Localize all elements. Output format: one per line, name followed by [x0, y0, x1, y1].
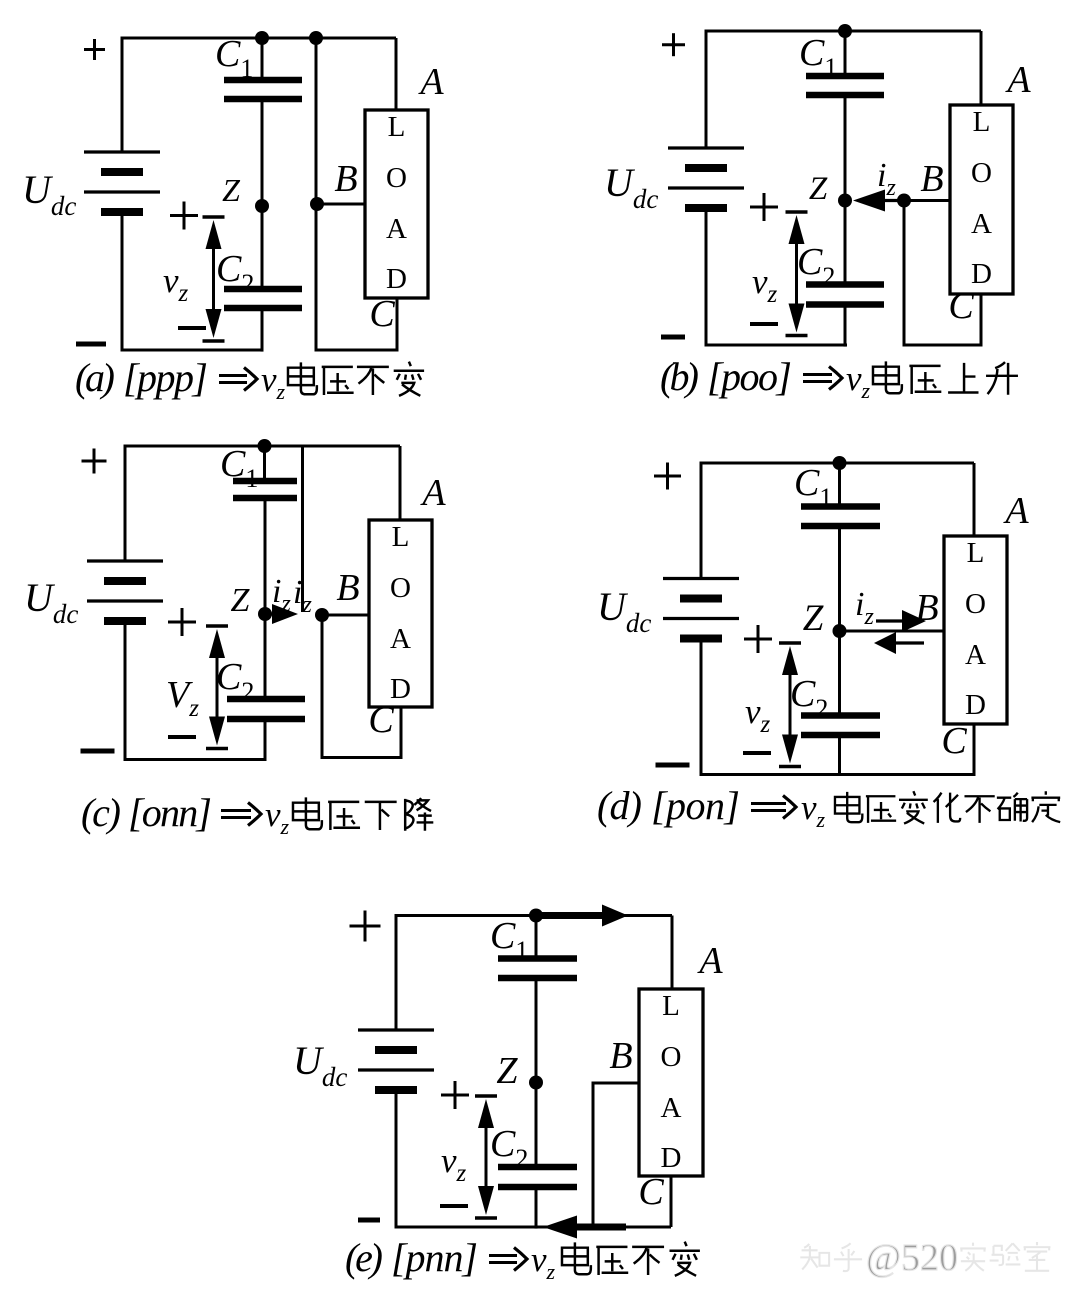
vz indicator (c) bottom tick	[206, 747, 228, 750]
node Z dot (d)	[833, 624, 847, 638]
capacitor C2 (d)	[801, 716, 880, 736]
wire top rail (a)	[122, 38, 396, 152]
node junction dot C1-top (b)	[838, 24, 852, 38]
wire B branch vertical (a)	[316, 38, 397, 350]
wire C1 bottom to node Z (e)	[535, 978, 538, 1083]
vz indicator (b) top tick	[786, 210, 808, 213]
wire node Z to C2 top (e)	[535, 1083, 538, 1168]
svg-text:Udc: Udc	[597, 584, 651, 638]
node junction dot B-branch-top (a)	[309, 31, 323, 45]
wire phase A drop (a)	[395, 38, 398, 110]
caption (e) chinese text	[562, 1242, 700, 1276]
svg-text:L: L	[967, 537, 985, 569]
wire battery negative to bottom rail (d)	[701, 639, 974, 775]
svg-text:B: B	[920, 158, 943, 200]
svg-text:(d): (d)	[597, 783, 642, 828]
load U1 (c) text LOAD	[390, 521, 411, 705]
vz indicator (d) minus sign	[743, 751, 771, 755]
load U1 (c) box	[369, 520, 432, 707]
caption (c) chinese text	[293, 797, 433, 830]
caption (c) implies arrow	[221, 803, 261, 826]
vz indicator (a) double arrow	[206, 220, 222, 338]
svg-text:vz: vz	[163, 261, 189, 307]
vz indicator (b) bottom tick	[786, 334, 808, 337]
node Z dot (a)	[255, 199, 269, 213]
wire battery negative to bottom rail (a)	[122, 212, 263, 350]
svg-text:(a): (a)	[75, 355, 115, 400]
caption (b) implies arrow	[803, 367, 842, 390]
battery plus sign (a)	[84, 39, 105, 60]
svg-text:D: D	[965, 689, 986, 721]
caption (d) implies arrow	[751, 796, 796, 819]
wire node B to load (c)	[322, 614, 369, 617]
svg-text:vz: vz	[261, 360, 286, 404]
vz indicator (a) top tick	[203, 215, 225, 218]
node junction dot C1-top (c)	[258, 439, 272, 453]
wire node Z to load B (d)	[840, 630, 945, 633]
capacitor C1 (b)	[806, 76, 884, 95]
battery minus sign (b)	[661, 335, 685, 340]
svg-text:B: B	[609, 1035, 632, 1077]
load U1 (d) box	[944, 536, 1007, 724]
vz indicator (b) double arrow	[789, 215, 805, 333]
svg-text:B: B	[915, 587, 938, 629]
capacitor C1 (e)	[498, 959, 577, 979]
wire C1 bottom to node Z (b)	[844, 95, 847, 200]
svg-text:D: D	[971, 258, 992, 290]
svg-text:C: C	[941, 720, 967, 762]
capacitor C1 (a)	[224, 80, 302, 99]
node B dot (a)	[310, 197, 324, 211]
svg-text:B: B	[336, 567, 359, 609]
capacitor C1 (d)	[801, 507, 880, 527]
svg-text:vz: vz	[441, 1141, 467, 1187]
svg-text:Udc: Udc	[293, 1038, 347, 1092]
svg-text:(c): (c)	[81, 790, 121, 835]
wire phase A drop (c)	[399, 446, 402, 520]
current arrow iz into Z (b)	[853, 190, 904, 212]
caption (d) chinese text	[835, 791, 1060, 823]
wire C1 top plate to rail (b)	[844, 31, 847, 76]
wire phase A drop (d)	[973, 463, 976, 536]
wire top rail (e)	[396, 916, 672, 1031]
capacitor C2 (b)	[806, 285, 884, 305]
svg-text:A: A	[386, 213, 407, 245]
wire top rail (c)	[125, 446, 400, 561]
wire C2 bottom to bottom rail (a)	[261, 308, 264, 352]
svg-text:vz: vz	[801, 788, 826, 832]
svg-text:C: C	[369, 293, 395, 335]
wire C1 top plate to rail (d)	[838, 463, 841, 507]
battery plus sign (e)	[350, 911, 381, 942]
battery minus sign (a)	[76, 342, 106, 347]
wire B branch to load bottom (b)	[904, 201, 981, 346]
svg-text:L: L	[662, 990, 680, 1022]
svg-text:O: O	[386, 162, 407, 194]
svg-text:Udc: Udc	[604, 160, 658, 214]
svg-text:vz: vz	[745, 692, 771, 738]
battery plus sign (d)	[654, 463, 681, 490]
wire C2 bottom to bottom rail (c)	[264, 719, 267, 761]
load U1 (e) text LOAD	[661, 990, 682, 1174]
wire node Z to C2 top (c)	[264, 614, 267, 699]
caption (b) chinese text	[873, 361, 1018, 394]
vz indicator (d) top tick	[779, 641, 801, 644]
svg-text:C: C	[638, 1171, 664, 1213]
svg-text:O: O	[661, 1041, 682, 1073]
vz indicator (e) double arrow	[478, 1099, 494, 1215]
svg-text:vz: vz	[265, 795, 290, 839]
vz indicator (d) bottom tick	[779, 765, 801, 768]
load U1 (a) text LOAD	[386, 111, 407, 295]
vz indicator (e) minus sign	[440, 1204, 468, 1208]
caption (e) implies arrow	[489, 1248, 527, 1271]
current arrow iz toward Z (d)	[874, 632, 924, 654]
vz indicator (a) plus sign	[170, 202, 198, 230]
svg-text:[poo]: [poo]	[707, 354, 792, 399]
vz indicator (c) plus sign	[168, 608, 196, 636]
wire load B to bottom rail (e)	[593, 1083, 639, 1227]
battery minus sign (d)	[656, 763, 690, 768]
wire C2 bottom to bottom rail (e)	[535, 1187, 538, 1229]
svg-text:C: C	[948, 285, 974, 327]
svg-text:iz: iz	[855, 586, 874, 630]
node junction dot C1-top (a)	[255, 31, 269, 45]
vz indicator (c) top tick	[206, 624, 228, 627]
svg-text:A: A	[661, 1092, 682, 1124]
caption (a) implies arrow	[219, 368, 257, 391]
vz indicator (d) double arrow	[782, 646, 798, 764]
wire battery negative to bottom rail (e)	[396, 1090, 671, 1227]
battery minus sign (c)	[81, 749, 115, 754]
vz indicator (b) plus sign	[750, 193, 778, 221]
svg-text:vz: vz	[846, 359, 871, 403]
node B dot (c)	[315, 608, 329, 622]
svg-text:C1: C1	[215, 33, 253, 83]
wire node B to load (a)	[317, 203, 364, 206]
svg-text:Z: Z	[231, 582, 251, 619]
battery Udc (a)	[84, 152, 160, 212]
svg-text:O: O	[971, 157, 992, 189]
vz indicator (b) minus sign	[750, 322, 778, 326]
svg-text:vz: vz	[752, 262, 778, 308]
vz indicator (c) minus sign	[168, 735, 196, 739]
svg-text:C1: C1	[220, 443, 258, 493]
wire load C to bottom rail (e)	[670, 1176, 673, 1227]
svg-text:L: L	[392, 521, 410, 553]
svg-text:A: A	[390, 623, 411, 655]
svg-text:Z: Z	[809, 171, 828, 207]
svg-text:A: A	[965, 639, 986, 671]
caption (a) chinese text	[288, 362, 424, 396]
load U1 (d) text LOAD	[965, 537, 986, 721]
wire B branch to load bottom (c)	[322, 615, 401, 758]
svg-text:[pon]: [pon]	[651, 783, 740, 828]
svg-text:C: C	[368, 699, 394, 741]
node Z dot (e)	[529, 1076, 543, 1090]
vz indicator (a) minus sign	[178, 326, 206, 330]
wire node Z to C2 top (b)	[844, 201, 847, 285]
svg-text:L: L	[973, 106, 991, 138]
svg-text:Vz: Vz	[166, 674, 199, 722]
load U1 (e) box	[639, 989, 703, 1176]
wire top rail (d)	[701, 463, 974, 579]
node Z dot (b)	[838, 194, 852, 208]
wire battery negative to bottom rail (b)	[706, 208, 847, 345]
wire C1 top plate to rail (c)	[263, 446, 266, 481]
current arrow iz out of Z (c)	[266, 604, 298, 624]
svg-text:Udc: Udc	[24, 575, 78, 629]
svg-text:A: A	[696, 940, 723, 982]
svg-text:A: A	[1004, 59, 1031, 101]
svg-text:B: B	[334, 158, 357, 200]
svg-text:[ppp]: [ppp]	[123, 355, 208, 400]
capacitor C2 (a)	[224, 289, 302, 308]
vz indicator (d) plus sign	[744, 625, 772, 653]
svg-text:A: A	[419, 472, 446, 514]
watermark zhihu @520 lab	[800, 1237, 1050, 1279]
battery Udc (b)	[668, 148, 744, 208]
svg-text:A: A	[1002, 490, 1029, 532]
wire node B to load (b)	[904, 199, 950, 202]
wire C1 top plate to rail (a)	[261, 38, 264, 80]
svg-text:@520: @520	[866, 1237, 958, 1279]
load U1 (a) box	[365, 110, 428, 298]
svg-text:D: D	[661, 1142, 682, 1174]
vz indicator (e) top tick	[475, 1094, 497, 1097]
wire top rail (b)	[706, 31, 981, 148]
load U1 (b) box	[950, 105, 1013, 294]
battery Udc (c)	[87, 561, 163, 621]
svg-text:vz: vz	[531, 1240, 556, 1284]
capacitor C2 (e)	[498, 1167, 577, 1187]
wire C1 bottom to node Z (a)	[261, 99, 264, 206]
current arrow on top rail (e)	[540, 905, 628, 927]
vz indicator (a) bottom tick	[203, 339, 225, 342]
wire C1 top plate to rail (e)	[535, 916, 538, 959]
wire node Z to C2 top (d)	[838, 631, 841, 716]
wire phase A drop (b)	[980, 31, 983, 105]
wire C1 bottom to node Z (d)	[838, 526, 841, 631]
node B dot (b)	[897, 194, 911, 208]
svg-text:[onn]: [onn]	[128, 790, 212, 835]
vz indicator (e) bottom tick	[475, 1216, 497, 1219]
battery minus sign (e)	[358, 1218, 380, 1223]
wire node Z to C2 top (a)	[261, 206, 264, 289]
svg-text:A: A	[417, 61, 444, 103]
wire C1 bottom to node Z (c)	[264, 498, 267, 614]
svg-text:Z: Z	[496, 1050, 518, 1092]
svg-text:Udc: Udc	[22, 167, 76, 221]
svg-text:L: L	[388, 111, 406, 143]
vz indicator (c) double arrow	[209, 629, 225, 746]
current arrow on bottom rail (e)	[543, 1216, 626, 1239]
node junction dot C1-top (d)	[833, 456, 847, 470]
vz indicator (e) plus sign	[441, 1081, 469, 1109]
svg-text:Z: Z	[803, 598, 824, 639]
battery Udc (d)	[663, 579, 739, 639]
node junction dot C1-top (e)	[529, 909, 543, 923]
svg-text:Z: Z	[222, 172, 241, 208]
wire battery negative to bottom rail (c)	[125, 621, 266, 760]
node Z dot (c)	[258, 607, 272, 621]
wire C2 bottom to bottom rail (b)	[844, 305, 847, 347]
wire B-phase tap to top rail (c)	[301, 446, 304, 612]
battery plus sign (c)	[82, 449, 107, 474]
svg-text:D: D	[386, 263, 407, 295]
battery Udc (e)	[358, 1030, 434, 1090]
svg-text:A: A	[971, 208, 992, 240]
capacitor C1 (c)	[233, 481, 297, 498]
capacitor C2 (c)	[227, 699, 305, 719]
wire phase A drop (e)	[671, 916, 674, 990]
svg-text:O: O	[965, 588, 986, 620]
svg-text:(e): (e)	[345, 1235, 383, 1280]
load U1 (b) text LOAD	[971, 106, 992, 290]
current arrow iz toward B (d)	[876, 610, 926, 632]
svg-text:O: O	[390, 572, 411, 604]
battery plus sign (b)	[662, 33, 685, 56]
svg-text:(b): (b)	[660, 354, 699, 399]
svg-text:[pnn]: [pnn]	[391, 1235, 478, 1280]
wire C2 bottom to bottom rail (d)	[838, 735, 841, 776]
